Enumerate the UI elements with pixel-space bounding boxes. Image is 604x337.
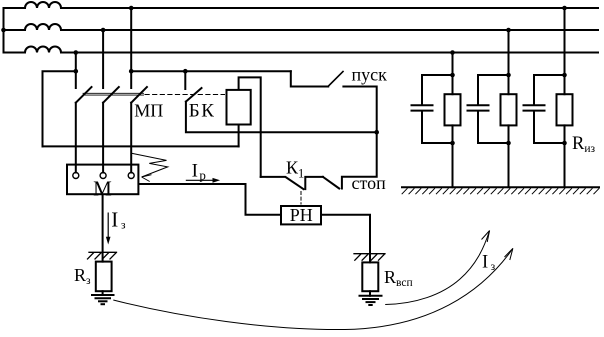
current arrow Iр (186, 178, 220, 183)
node tap phase A (129, 6, 134, 11)
linkage dashed link to БК and coil (145, 94, 225, 96)
node control tap on phase A drop (129, 69, 134, 74)
inductor source phase B (4, 24, 62, 30)
wire capacitor branch 3 bottom (534, 111, 565, 143)
button стоп (stop) (323, 132, 377, 188)
wire contact 1 bottom lead (75, 103, 77, 173)
earth current curve from Rз (113, 248, 513, 329)
earth surface hatching above Rвсп (354, 254, 385, 261)
inductor source phase A (4, 2, 62, 8)
node tap phase C (74, 50, 79, 55)
linkage bar of МП contacts (83, 93, 144, 95)
wire left vertical joining source coils (3, 8, 5, 53)
node RC tap phase A (562, 6, 567, 11)
wire Rвсп top lead (369, 244, 371, 262)
wire capacitor branch 2 bottom (478, 111, 509, 143)
svg-text:пуск: пуск (352, 64, 388, 84)
node RC tap phase B (506, 28, 511, 33)
svg-text:Rз: Rз (74, 265, 91, 287)
svg-text:БК: БК (189, 101, 216, 122)
wire capacitor branch 3 top (534, 75, 565, 105)
capacitor C1 (412, 105, 433, 110)
blade of пуск (328, 72, 343, 87)
resistor Rиз 3 (557, 94, 573, 125)
contactor МП contact 2 (103, 87, 119, 103)
wire phase B drop (102, 30, 104, 88)
wire contact 3 bottom lead (130, 103, 132, 173)
wire RC drop phase C (452, 53, 454, 95)
resistor Rвсп (362, 262, 378, 291)
dashed link К1 to РН (300, 192, 302, 205)
node control tap on phase C drop (74, 69, 79, 74)
terminal 3 of motor (128, 173, 134, 179)
wire БК top lead (184, 71, 186, 89)
svg-text:Rиз: Rиз (572, 134, 595, 155)
node RC top junction 1 (450, 73, 455, 78)
wire coil bottom lead (238, 126, 240, 147)
ground symbol below Rвсп (360, 296, 382, 305)
earth surface hatching above Rз (88, 252, 117, 259)
inductor source phase C (4, 47, 62, 53)
svg-text:Rвсп: Rвсп (384, 267, 413, 289)
earth surface hatching right (402, 188, 600, 194)
wire resistor 3 to earth (564, 125, 566, 187)
wire resistor 2 to earth (508, 125, 510, 187)
relay РН box (281, 206, 321, 224)
terminal 1 of motor (73, 173, 79, 179)
node RC top junction 3 (562, 73, 567, 78)
button пуск (start) (291, 71, 377, 132)
wire RC drop phase B (508, 30, 510, 94)
wire motor frame to РН (operating current path) (139, 184, 279, 215)
resistor Rиз 1 (445, 94, 461, 125)
node RC top junction 2 (506, 73, 511, 78)
node stop branch junction (374, 130, 379, 135)
wire БК bottom lead and link to stop-branch node (186, 102, 377, 133)
wire РН to Rвсп (323, 215, 370, 256)
current arrow Iз at motor ground lead (106, 213, 111, 245)
wire coil top lead to К1 (239, 77, 261, 176)
node RC bottom junction 1 (450, 141, 455, 146)
wire phase C drop (75, 53, 77, 89)
wire Rвсп to ground (369, 291, 371, 296)
capacitor C3 (524, 105, 545, 110)
capacitor C2 (468, 105, 489, 110)
svg-text:МП: МП (134, 101, 163, 121)
coil МП contactor coil (227, 90, 251, 125)
wire contact 2 bottom lead (102, 103, 104, 173)
contactor МП contact 3 (131, 87, 147, 103)
wire RC drop phase A (564, 8, 566, 94)
svg-text:К1: К1 (286, 158, 304, 181)
contactor МП contact 1 (76, 87, 92, 103)
ground symbol below Rз (92, 295, 114, 304)
motor М body (67, 165, 138, 195)
earth current curve from Rвсп (385, 231, 489, 305)
terminal 2 of motor (100, 173, 106, 179)
wire control left branch (43, 71, 76, 146)
wire resistor to ground (102, 291, 104, 295)
wire bus phase B (61, 29, 598, 31)
wire bus phase C (61, 52, 598, 54)
svg-text:РН: РН (290, 205, 313, 225)
resistor Rз (96, 262, 112, 292)
wire coil return to control left branch (43, 145, 239, 147)
relay contact К1 (261, 177, 323, 189)
wire bus phase A (61, 7, 598, 9)
node RC bottom junction 3 (562, 141, 567, 146)
block contact БК (186, 88, 202, 102)
resistor Rиз 2 (501, 94, 517, 125)
wire capacitor branch 2 top (478, 75, 509, 105)
svg-text:Iз: Iз (482, 253, 496, 273)
wire resistor 1 to earth (452, 125, 454, 187)
wire capacitor branch 1 top (422, 75, 453, 105)
node БК tap (183, 69, 188, 74)
svg-text:стоп: стоп (352, 173, 387, 193)
earth surface line right (402, 186, 599, 188)
wire phase A drop (130, 8, 132, 88)
node RC bottom junction 2 (506, 141, 511, 146)
wire motor to ground resistor (102, 195, 104, 262)
node source neutral (1, 28, 6, 33)
lightning fault arrow at motor (132, 153, 168, 181)
svg-text:Iз: Iз (111, 207, 126, 231)
wire capacitor branch 1 bottom (422, 111, 453, 143)
svg-text:Iр: Iр (192, 161, 206, 183)
wire control supply to start button (131, 70, 291, 72)
node RC tap phase C (450, 50, 455, 55)
svg-text:М: М (93, 177, 112, 201)
node tap phase B (101, 28, 106, 33)
